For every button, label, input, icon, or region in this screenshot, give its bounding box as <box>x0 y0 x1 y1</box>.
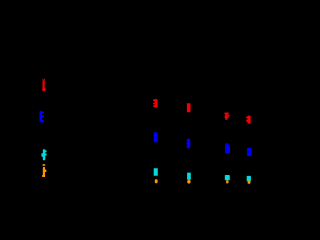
molecule B : oxygen O (red) with double-bond ticks <box>153 99 158 108</box>
molecule D : nitrogen N (blue) <box>225 143 230 153</box>
molecule E : orange atom stub <box>248 180 251 183</box>
molecule D : cyan atom label <box>225 175 230 180</box>
molecule C : cyan atom label <box>187 173 191 180</box>
molecule B : nitrogen N (blue) <box>154 132 158 142</box>
molecule A : carbonyl oxygen O (red) with double-bond fork <box>42 79 45 91</box>
molecule C : orange atom dot <box>187 180 190 184</box>
molecule C : oxygen O (red) <box>187 103 191 112</box>
molecule A : phosphorus-colored atom (orange) with bond dash <box>42 164 46 177</box>
molecule E : cyan atom label <box>247 176 251 181</box>
molecule D : orange atom stub <box>226 180 228 183</box>
molecule A : ring nitrogen N (blue) with bond stubs <box>40 111 45 123</box>
molecule E : oxygen O (red) with double-bond ticks <box>246 116 250 124</box>
molecule E : nitrogen N (blue) <box>247 148 251 156</box>
molecule B : orange atom dot <box>155 179 158 183</box>
molecule D : oxygen O (red) drawn as stacked bond bars <box>225 113 230 120</box>
molecule C : nitrogen N (blue) <box>187 139 191 149</box>
molecule A : fluorine-colored atom (cyan) <box>41 149 46 160</box>
molecule B : cyan atom label <box>154 168 158 176</box>
